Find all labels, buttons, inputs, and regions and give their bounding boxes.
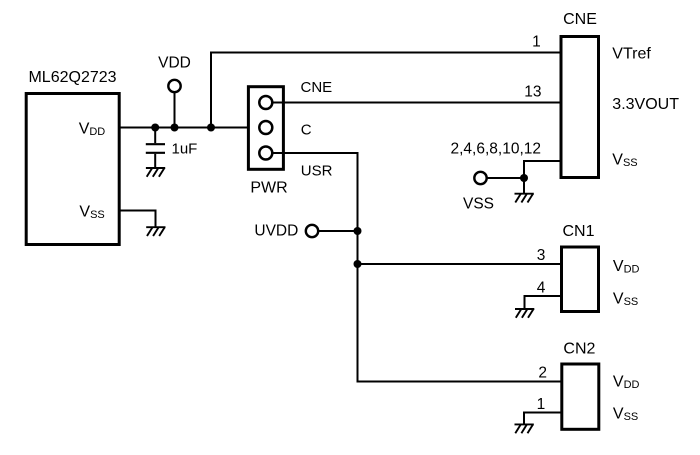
wire ground stem (VSS) bbox=[523, 178, 525, 194]
ground (capacitor) bbox=[146, 168, 165, 177]
svg-text:VSS: VSS bbox=[613, 406, 638, 424]
power terminal VDD bbox=[168, 80, 180, 92]
svg-text:CN1: CN1 bbox=[562, 223, 594, 240]
svg-text:CN2: CN2 bbox=[563, 341, 595, 358]
junction dot CNE pin1 tap bbox=[207, 124, 215, 132]
svg-text:UVDD: UVDD bbox=[254, 223, 298, 240]
svg-text:ML62Q2723: ML62Q2723 bbox=[28, 69, 116, 86]
svg-text:2,4,6,8,10,12: 2,4,6,8,10,12 bbox=[451, 141, 542, 158]
svg-text:1: 1 bbox=[537, 396, 546, 413]
svg-text:VDD: VDD bbox=[613, 373, 640, 391]
connector CN2 bbox=[562, 364, 599, 429]
svg-text:CNE: CNE bbox=[563, 11, 597, 28]
connector CNE bbox=[561, 37, 599, 178]
junction dot UVDD tap bbox=[354, 227, 362, 235]
svg-text:PWR: PWR bbox=[250, 179, 287, 196]
svg-text:2: 2 bbox=[538, 364, 547, 381]
wire CN1 pin 4 to ground bbox=[525, 296, 562, 309]
terminal UVDD bbox=[306, 225, 318, 237]
svg-text:VTref: VTref bbox=[612, 45, 651, 62]
svg-text:13: 13 bbox=[524, 83, 541, 100]
wire CN2 pin 1 to ground bbox=[524, 413, 561, 425]
ground (VSS net) bbox=[515, 194, 534, 203]
wire USR to CN1 pin 3 bbox=[358, 263, 562, 265]
svg-text:1uF: 1uF bbox=[172, 141, 198, 158]
svg-text:USR: USR bbox=[301, 163, 333, 180]
wire USR net bbox=[272, 153, 561, 382]
connector CN1 bbox=[562, 247, 599, 312]
svg-text:VSS: VSS bbox=[612, 151, 637, 169]
wire to CNE pin 1 bbox=[211, 53, 561, 128]
svg-text:4: 4 bbox=[537, 280, 546, 297]
ground (CN2) bbox=[515, 424, 534, 433]
ground (U1 VSS) bbox=[146, 227, 165, 236]
junction dot capacitor tap bbox=[151, 124, 159, 132]
wire PWR CNE to CNE pin 13 bbox=[272, 102, 561, 104]
svg-text:VSS: VSS bbox=[613, 291, 638, 309]
capacitor C1 1uF bbox=[154, 128, 156, 144]
junction dot CN1 tap bbox=[354, 260, 362, 268]
junction dot VDD tap bbox=[171, 124, 179, 132]
svg-text:3: 3 bbox=[537, 247, 546, 264]
PWR pin circle USR bbox=[259, 147, 272, 160]
svg-text:3.3VOUT: 3.3VOUT bbox=[612, 96, 679, 113]
svg-text:VDD: VDD bbox=[158, 55, 191, 72]
PWR pin circle CNE bbox=[259, 96, 272, 109]
wire UVDD bbox=[319, 230, 358, 232]
PWR pin circle C bbox=[259, 121, 272, 134]
svg-text:VSS: VSS bbox=[463, 195, 494, 212]
connector PWR bbox=[248, 87, 283, 170]
wire VSS to CNE pins bbox=[487, 161, 561, 178]
svg-text:VDD: VDD bbox=[613, 258, 640, 276]
junction dot VSS/ground bbox=[520, 174, 528, 182]
svg-text:CNE: CNE bbox=[301, 79, 333, 96]
wire VDD stem bbox=[174, 93, 176, 128]
svg-text:1: 1 bbox=[532, 34, 541, 51]
IC U1 ML62Q2723 bbox=[26, 94, 119, 245]
terminal VSS bbox=[474, 172, 486, 184]
ground (CN1) bbox=[515, 309, 534, 318]
svg-text:C: C bbox=[301, 121, 312, 138]
wire U1 VSS to ground bbox=[121, 211, 156, 228]
wire VDD rail bbox=[121, 127, 260, 129]
